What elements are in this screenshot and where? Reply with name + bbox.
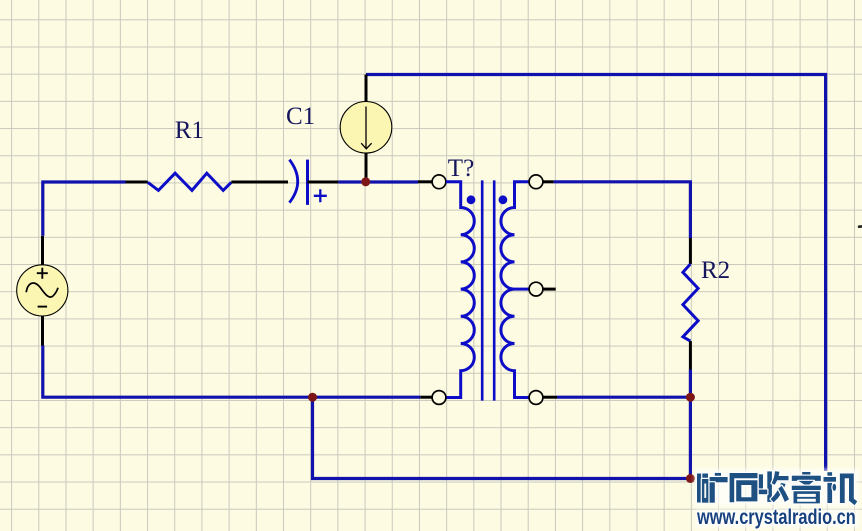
junction bottom-left node [308,393,317,402]
current source pin bottom [365,152,368,181]
char yin [792,472,821,503]
capacitor C1 pin right [308,181,339,184]
svg-text:C1: C1 [286,103,315,130]
transformer T? pin stub top-right [543,180,554,183]
resistor R1 body [148,173,232,190]
svg-text:T?: T? [448,155,474,182]
transformer T? secondary polarity dot [499,195,508,204]
transformer T? terminal circle top-left [432,175,446,189]
resistor R1 pin left [126,181,148,184]
svg-text:R2: R2 [701,257,730,284]
transformer T? core [482,180,494,400]
char ji [824,472,858,505]
wire transformer bottom-right to R2 node [557,396,690,399]
transformer T? terminal circle bottom-left [432,391,446,405]
svg-text:R1: R1 [175,117,204,144]
wire transformer top-right to R2 [554,182,691,238]
wire left from AC source to R1 [43,182,126,236]
char shou [759,471,789,502]
transformer T? terminal circle top-right [529,175,543,189]
transformer T? pin stub bottom-right [543,396,557,399]
wire R2 bottom vertical [689,370,692,479]
junction R2 top node [686,393,695,402]
transformer T? primary polarity dot [467,195,476,204]
edge mark right [859,225,862,228]
char kuang [697,473,728,503]
AC voltage source V1 [17,265,68,316]
junction bottom-right node [686,474,695,483]
transformer T? terminal circle bottom-right [529,391,543,405]
transformer T? primary winding [446,182,474,398]
wire left vertical bottom [43,346,421,398]
transformer T? pin stub bottom-left [420,396,432,399]
transformer T? secondary winding [501,182,529,398]
svg-text:www.crystalradio.cn: www.crystalradio.cn [696,505,856,528]
capacitor C1 plus sign [314,189,327,202]
resistor R2 pin top [689,238,692,264]
resistor R2 pin bottom [689,341,692,369]
transformer T? terminal circle center tap [529,282,543,296]
resistor R2 body [683,264,698,341]
wire top from current source to right edge [366,75,826,472]
capacitor C1 straight plate [306,160,309,205]
transformer T? center tap line [515,288,530,291]
current source pin top [365,75,368,103]
watermark 矿石收音机 [697,471,857,505]
junction at C1 / current source node [361,177,370,186]
transformer T? pin stub center tap [543,288,556,291]
watermark halo backdrop [695,469,859,506]
current source I1 [340,102,392,154]
wire C1 to transformer [338,180,418,183]
char shi [730,473,758,502]
capacitor C1 curved plate [289,160,297,203]
resistor R1 pin right [231,181,288,184]
wire AC source top pin [41,236,44,265]
wire bottom return [313,397,691,478]
transformer T? pin stub top-left [418,180,432,183]
wire AC source bottom pin [41,316,44,346]
